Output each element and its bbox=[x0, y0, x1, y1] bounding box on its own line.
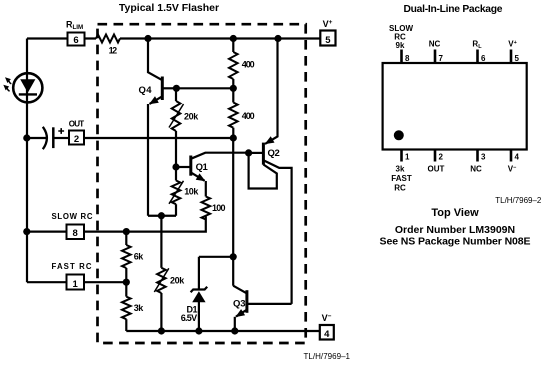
wire: FAST RC line bbox=[27, 281, 126, 283]
svg-text:3: 3 bbox=[481, 153, 486, 162]
svg-text:RLIM: RLIM bbox=[66, 20, 83, 32]
svg-text:V−: V− bbox=[322, 313, 332, 323]
svg-text:4: 4 bbox=[324, 329, 330, 340]
svg-text:12: 12 bbox=[109, 46, 118, 56]
pin box 8 SLOW RC bbox=[52, 212, 93, 239]
capacitor (electrolytic) + OUT wire bbox=[27, 127, 69, 149]
svg-text:V−: V− bbox=[508, 165, 517, 174]
svg-text:FAST RC: FAST RC bbox=[52, 262, 92, 271]
svg-text:400: 400 bbox=[242, 60, 255, 70]
transistor Q4 bbox=[139, 39, 177, 105]
svg-text:TL/H/7969–2: TL/H/7969–2 bbox=[495, 196, 542, 205]
svg-text:1: 1 bbox=[73, 279, 79, 290]
LED (indicator lamp) bbox=[3, 73, 42, 102]
svg-text:RC: RC bbox=[394, 184, 406, 193]
pin box 2 OUT bbox=[69, 119, 85, 144]
resistor 6k bbox=[122, 232, 144, 283]
svg-text:8: 8 bbox=[73, 228, 78, 239]
svg-text:6.5V: 6.5V bbox=[181, 313, 197, 323]
svg-text:SLOW RC: SLOW RC bbox=[52, 212, 93, 221]
svg-text:10k: 10k bbox=[184, 187, 199, 197]
wire: bottom V- rail bbox=[126, 330, 319, 332]
svg-text:2: 2 bbox=[74, 134, 79, 145]
wire: D1 top to Q3 collector node bbox=[199, 256, 233, 258]
resistor 400 (lower) bbox=[229, 88, 255, 138]
svg-text:1: 1 bbox=[405, 153, 410, 162]
svg-text:Q1: Q1 bbox=[196, 162, 209, 173]
pin box 1 FAST RC bbox=[52, 262, 92, 290]
wire: bracket Q4 emitter / 10k / 20k tap bbox=[148, 215, 176, 217]
svg-text:V+: V+ bbox=[323, 19, 333, 29]
resistor 100 bbox=[202, 181, 226, 220]
transistor Q1 bbox=[176, 153, 249, 182]
svg-text:Dual-In-Line Package: Dual-In-Line Package bbox=[404, 4, 503, 15]
svg-text:3k: 3k bbox=[134, 303, 145, 313]
svg-text:20k: 20k bbox=[184, 112, 199, 122]
DIP pin numbers bbox=[405, 54, 520, 162]
svg-text:8: 8 bbox=[405, 54, 410, 63]
wire: OUT line to 400s junction bbox=[84, 137, 233, 139]
pin box 6 RLIM bbox=[66, 20, 85, 46]
svg-text:3k: 3k bbox=[396, 165, 405, 174]
svg-text:6: 6 bbox=[481, 54, 486, 63]
dashed IC boundary box bbox=[98, 24, 306, 343]
svg-text:TL/H/7969–1: TL/H/7969–1 bbox=[304, 352, 351, 361]
svg-text:FAST: FAST bbox=[391, 174, 412, 183]
DIP pin 8 label SLOW RC 9k bbox=[389, 24, 413, 50]
DIP pin-1 dot bbox=[394, 130, 404, 140]
pin box 5 V+ bbox=[320, 19, 335, 46]
resistor 10k (variable) bbox=[169, 167, 199, 216]
DIP pins bottom bbox=[402, 150, 512, 162]
svg-text:Top View: Top View bbox=[431, 207, 479, 219]
svg-text:9k: 9k bbox=[396, 41, 405, 50]
svg-text:400: 400 bbox=[242, 111, 255, 121]
DIP pin 1 label 3k FAST RC bbox=[391, 165, 412, 193]
svg-text:V+: V+ bbox=[508, 40, 517, 49]
svg-text:5: 5 bbox=[515, 54, 520, 63]
wire: 400s bottom vertical to D1 node bbox=[232, 138, 234, 286]
svg-text:OUT: OUT bbox=[69, 119, 85, 128]
svg-text:Typical 1.5V Flasher: Typical 1.5V Flasher bbox=[119, 2, 219, 14]
svg-text:NC: NC bbox=[429, 40, 441, 49]
resistor 400 (upper) bbox=[229, 39, 255, 89]
transistor Q2 (dual collector PNP) bbox=[249, 39, 292, 304]
DIP package body bbox=[383, 63, 527, 150]
zener diode D1 6.5V bbox=[181, 257, 208, 331]
svg-text:2: 2 bbox=[439, 153, 444, 162]
DIP pins top bbox=[402, 50, 512, 64]
resistor 20k (lower, variable) bbox=[154, 216, 185, 331]
resistor 12 bbox=[96, 35, 120, 56]
svg-text:See NS Package Number N08E: See NS Package Number N08E bbox=[380, 236, 531, 248]
svg-text:RL: RL bbox=[472, 40, 482, 51]
wire: top V+ rail bbox=[27, 37, 320, 39]
svg-text:Q3: Q3 bbox=[233, 299, 245, 310]
resistor 20k (upper, variable) bbox=[169, 88, 199, 167]
svg-text:6: 6 bbox=[73, 35, 78, 46]
wire: Q4 base line to 400 divider bbox=[176, 87, 233, 89]
transistor Q3 bbox=[233, 286, 292, 331]
resistor 3k bbox=[122, 282, 144, 331]
svg-text:100: 100 bbox=[212, 203, 226, 213]
pin box 4 V- bbox=[320, 313, 334, 340]
svg-text:20k: 20k bbox=[170, 275, 185, 285]
wire: Q4 emitter down to bracket bbox=[147, 104, 149, 216]
svg-text:OUT: OUT bbox=[428, 165, 445, 174]
wire: SLOW RC line bbox=[27, 216, 206, 231]
svg-text:NC: NC bbox=[470, 165, 482, 174]
svg-text:5: 5 bbox=[325, 35, 331, 46]
svg-text:7: 7 bbox=[439, 54, 444, 63]
svg-text:Order Number LM3909N: Order Number LM3909N bbox=[395, 224, 515, 236]
svg-text:6k: 6k bbox=[134, 252, 145, 262]
wire: left vertical (battery bus) bbox=[26, 39, 28, 283]
svg-text:4: 4 bbox=[515, 153, 520, 162]
svg-text:Q2: Q2 bbox=[268, 148, 280, 159]
svg-text:Q4: Q4 bbox=[139, 85, 153, 96]
